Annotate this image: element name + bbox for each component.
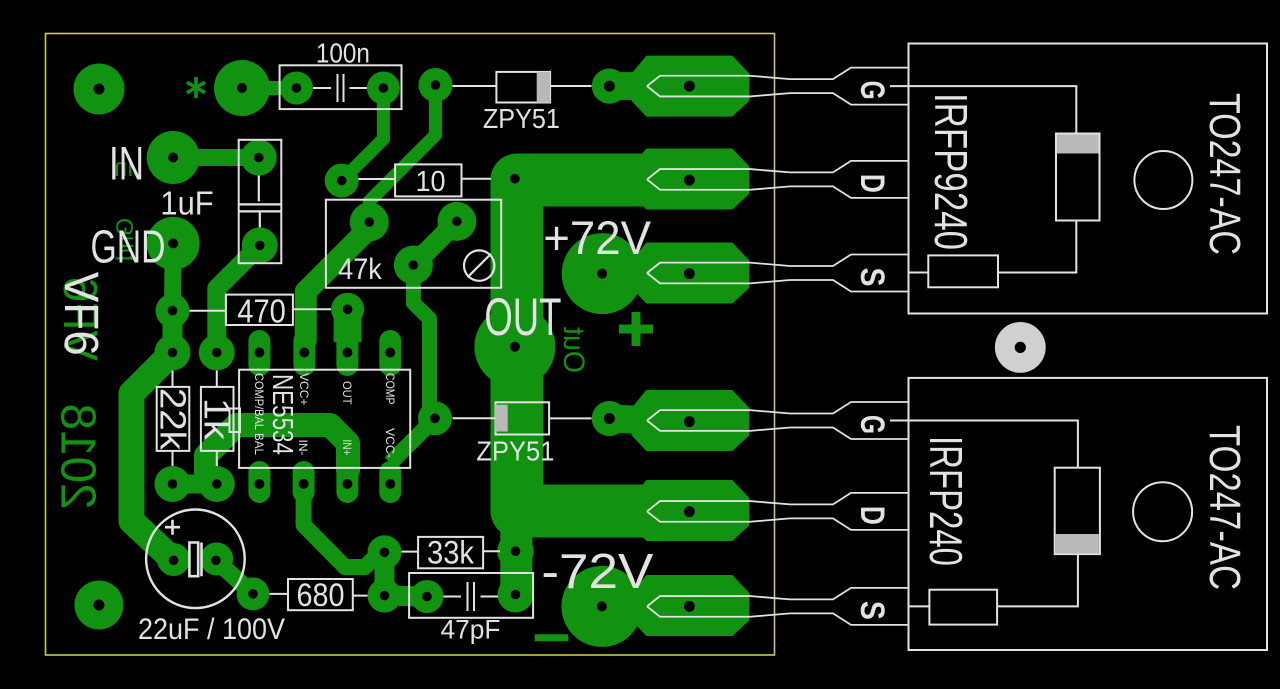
resistor R470 leads [190,309,332,310]
transistor Q1 source resistor box [928,255,998,287]
green plus mark [619,312,653,346]
wire 47k C to ZPY51-2 pad [413,265,429,412]
trimmer R47k screw symbol [464,250,494,280]
svg-text:D: D [853,174,891,193]
svg-text:VF6: VF6 [54,272,107,356]
green asterisk mark [187,77,205,98]
diode ZPY51-2 leads [453,417,592,419]
wire R22k bottom to R1k bottom [173,475,217,494]
svg-text:22uF / 100V: 22uF / 100V [138,613,285,646]
transistor Q1 pin G outline [647,68,909,105]
svg-text:G: G [853,81,891,100]
svg-text:2018: 2018 [51,404,105,510]
TRANSISTOR 2 IRFP240 [647,378,1267,650]
pad R1k top [199,335,235,371]
svg-text:47pF: 47pF [441,615,501,645]
pad -72V [561,566,642,647]
svg-text:ZPY51: ZPY51 [476,435,554,466]
transistor Q2 mounting hole circle [1133,482,1192,541]
wire OUT power trace [517,180,651,511]
silver pad between transistors [995,322,1046,373]
wire 47k B to C [413,221,457,265]
pad C1uF top [241,140,277,176]
svg-text:VCC+: VCC+ [297,373,311,406]
pad C47pF left [411,580,444,613]
pad C1uF bottom [242,227,278,263]
pad R33k right [497,533,534,570]
svg-text:1k: 1k [197,398,238,441]
wire ground to electrolytic cap [132,353,174,561]
svg-text:OUT: OUT [340,381,354,405]
lug G2 [632,390,750,451]
svg-text:IN-: IN- [296,440,310,456]
svg-text:NE5534: NE5534 [266,374,298,455]
transistor Q2 gate wire [890,421,1078,468]
capacitor C47pF symbol [444,582,499,611]
pad +72V [562,233,643,314]
transistor Q1 source wire [909,221,1076,273]
pad R680 right [368,579,402,613]
resistor R10 outline [395,164,461,196]
resistor R1k leads [216,371,218,467]
wire R33k left to R680 right [375,552,395,595]
transistor Q1 mounting hole circle [1134,151,1192,209]
svg-text:TO247-AC: TO247-AC [1200,93,1249,255]
WHITE SILKSCREEN [146,65,591,618]
capacitor C 1uF symbol [240,176,281,228]
resistor R33k outline [418,537,483,568]
pad big top (node star) [214,60,270,116]
svg-text:1uF: 1uF [160,186,213,223]
wire C100n-2 to R10 left pad [342,95,384,181]
pad electrolytic minus [200,542,233,575]
wire 47k A to VCC+ pin [306,228,370,340]
resistor R33k leads [402,550,501,552]
svg-text:680: 680 [297,577,345,613]
resistor R680 leads [270,594,368,596]
transistor Q2 pin G outline [647,402,909,439]
pad mount hole bottom-left [75,581,124,630]
resistor R10 leads [359,178,492,180]
svg-text:Out: Out [557,326,590,373]
wire big pad to C 100n left [242,81,297,95]
diode ZPY51-2 outline [496,402,550,434]
resistor R22k outline [157,387,190,451]
svg-text:470: 470 [237,292,285,329]
lug S2 [632,575,750,636]
wire ZPY51-2 pad to VCC- pin [390,418,435,463]
GREEN SILKSCREEN (bottom layer) [51,77,654,638]
electrolytic capacitor plus mark [165,520,180,535]
pad OUT [474,306,555,387]
capacitor C 100n outline [280,65,402,109]
svg-text:33k: 33k [427,535,475,571]
svg-text:TO247-AC: TO247-AC [1200,425,1249,590]
board outline yellow [46,34,775,656]
svg-text:D: D [853,506,891,525]
wire IN pad to C1uF top [173,149,259,166]
transistor Q1 pin D outline [647,161,909,198]
transistor Q1 internal diode outline [1056,134,1100,221]
svg-text:+72V: +72V [543,211,651,264]
transistor Q2 source wire [909,554,1078,606]
pad ZPY51-1 left [419,68,453,102]
svg-text:10: 10 [416,166,446,198]
transistor Q1 body outline [909,44,1268,314]
pad IN [147,131,200,184]
svg-text:IN: IN [109,136,144,189]
pad 47k B [437,202,476,241]
electrolytic capacitor 22uF outline [146,510,245,609]
svg-text:S: S [853,268,891,287]
svg-text:IRFP9240: IRFP9240 [925,93,977,250]
DRILL HOLES [94,80,695,612]
transistor Q2 pin D outline [647,493,909,530]
lug G1 [632,56,750,117]
capacitor C47pF outline [409,573,533,618]
pad gate1 [592,69,627,104]
wire R470 right pad to OUT pin [334,309,362,342]
pad 47k A [350,203,389,242]
wire -72V pad to S2 lug [602,588,645,624]
resistor R1k outline [201,387,234,451]
pad R470 right [331,293,364,326]
svg-text:OUT: OUT [484,288,561,347]
wire IN- pin to R33k left pad [304,484,380,567]
transistor Q2 internal diode outline [1055,468,1100,554]
transistor Q1 internal diode band [1057,135,1099,154]
pad gate2 [592,401,627,436]
transistor Q2 source resistor box [929,590,997,625]
lug D2 [632,480,750,541]
svg-text:ZPY51: ZPY51 [483,103,560,134]
pad R10 left [325,164,359,198]
green minus mark [535,634,569,641]
diode ZPY51-1 cathode band [537,72,550,103]
svg-text:VCC-: VCC- [383,428,397,458]
pad R680 left [237,577,270,610]
transistor Q2 pin S outline [647,588,909,625]
diode ZPY51-2 cathode band [494,405,507,432]
wire R1k bottom to IN+ pin (U trace) [206,425,348,486]
wire +72V pad to S1 lug [602,255,645,292]
IC pin pads row bottom [248,461,270,503]
transistor Q2 body outline [909,378,1268,650]
svg-text:BAL: BAL [252,433,266,455]
op-amp U1 pin1 notch [230,409,241,433]
pad GND [147,217,200,270]
resistor R680 outline [288,579,353,610]
wire C1uF bottom to R1k top [217,245,260,352]
capacitor C 100n symbol [313,74,367,102]
trimmer R47k outline [326,200,501,288]
transistor Q1 gate wire [890,86,1076,133]
TRANSISTOR 1 IRFP9240 [647,44,1267,314]
svg-text:GND: GND [91,221,166,273]
pad 47k C [394,246,433,285]
svg-text:IN+: IN+ [340,440,354,456]
pad R22k top [155,335,191,371]
op-amp U1 NE5534 outline [239,370,410,468]
pad C47pF right [498,577,534,613]
pad R33k left [368,535,402,569]
pad R1k bottom [199,466,235,502]
pad electrolytic plus [157,543,190,576]
svg-text:COMP: COMP [383,373,397,405]
wire R470 left to R22k top [163,311,183,353]
electrolytic capacitor 22uF symbol [189,543,201,577]
IC pin pads row top [248,330,270,376]
lug D1 [632,149,750,210]
wire gate2 pad to lug [609,419,645,421]
resistor R470 outline [226,295,293,325]
diode ZPY51-1 leads [453,85,592,87]
svg-text:COMP/BAL: COMP/BAL [252,373,266,430]
wire R680 right to C47pF left [385,586,428,607]
wire power bar to 33k/47pF right pads [500,522,532,598]
pad R22k bottom [155,466,191,502]
wire GND pad down [164,243,182,310]
svg-text:S: S [853,601,891,620]
svg-text:-72V: -72V [541,545,653,599]
pad R470 left [156,294,190,328]
COPPER LAYER [74,56,750,647]
lug S1 [632,243,750,304]
wire gate1 pad to lug [609,72,645,100]
svg-text:22k: 22k [153,388,194,451]
resistor R22k leads [172,371,174,467]
svg-text:G: G [853,415,891,434]
wire electrolytic minus to R680 left [216,560,253,594]
transistor Q2 internal diode band [1056,534,1099,553]
transistor Q1 pin S outline [647,255,909,292]
pad C100n-2 [367,72,400,105]
wire ZPY51-1 pad to 47k pad A [369,85,435,218]
svg-text:IRFP240: IRFP240 [920,436,972,566]
pad C100n-1 [280,72,313,105]
svg-text:100n: 100n [316,37,370,68]
pad mount hole top-left [74,64,125,115]
diode ZPY51-1 outline [496,72,550,103]
pad ZPY51-2 left [418,401,452,435]
capacitor C 1uF outline [239,140,282,263]
svg-text:47k: 47k [338,253,382,286]
